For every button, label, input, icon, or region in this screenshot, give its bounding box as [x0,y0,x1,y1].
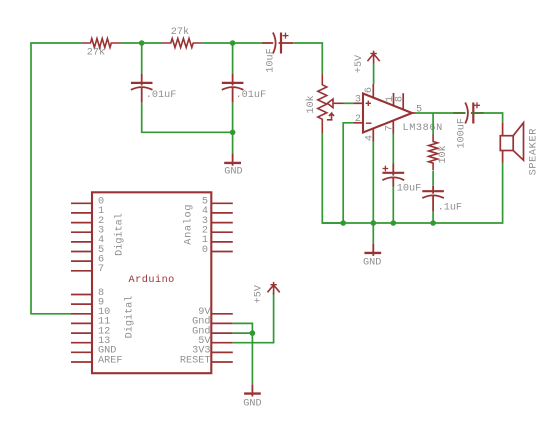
wire output down to R3 [432,113,434,135]
ground GND3 (Arduino) [244,384,261,396]
right power labels [180,307,211,366]
wire +5V to pin6 [373,64,375,85]
+5V supply P2 (Arduino) [268,282,280,295]
junction pin2/bus [340,220,346,226]
left pin labels [98,197,122,367]
right analog stubs [211,203,233,251]
svg-text:Arduino: Arduino [129,274,175,286]
wire C2 bottom to node C [232,103,234,133]
capacitor C4 10uF bypass [382,163,404,186]
node B junction [230,40,236,46]
junction pin4/bus [371,220,377,226]
svg-text:.01uF: .01uF [146,90,177,101]
op-amp plus input mark [366,101,371,106]
svg-text:10uF: 10uF [397,184,421,195]
svg-text:100uF: 100uF [457,118,468,149]
svg-text:AREF: AREF [98,355,122,366]
op-amp U1 LM386N triangle [363,94,412,133]
wire C1 bottom to node C [142,103,233,133]
Arduino module box [92,192,211,373]
svg-text:7: 7 [385,125,396,131]
svg-text:GND: GND [243,398,261,409]
svg-text:GND: GND [224,167,242,178]
svg-text:0: 0 [202,245,208,256]
svg-text:.01uF: .01uF [236,90,267,101]
ground GND2 (amp) [364,223,381,256]
svg-text:8: 8 [395,96,406,102]
wire node C to ground [232,132,234,153]
+5V supply P1 (amp) [368,51,380,64]
svg-text:27k: 27k [171,26,189,38]
wire 5V pin to +5V arrow [233,293,274,343]
op-amp minus input mark [366,122,372,124]
wire pin4 to ground bus [372,142,374,224]
speaker SP1 [500,122,523,162]
svg-text:6: 6 [364,87,375,93]
pin 8 stub [402,93,404,109]
wire R3 to C5 [432,171,434,186]
svg-text:SPEAKER: SPEAKER [528,128,539,175]
svg-text:3: 3 [355,94,361,105]
left pin stubs 0-7 [71,203,92,270]
right power stubs [211,314,233,362]
svg-text:10k: 10k [305,95,317,113]
wire C5 to ground bus [432,211,434,223]
svg-text:+5V: +5V [354,54,365,73]
svg-text:Analog: Analog [182,204,194,245]
wire Gnd pin to GND3 [233,323,253,384]
resistor R1 27k [81,39,121,48]
junction C4/bus [391,220,397,226]
wire pot wiper to pin3 [344,102,354,104]
svg-text:+5V: +5V [253,284,264,303]
svg-text:RESET: RESET [180,355,211,366]
resistor R3 10k [429,135,438,171]
wire C6 to speaker [484,113,503,122]
wire R1 to node A [121,42,161,44]
pin 4 stub [372,129,374,142]
wire R2 to node B to C3 [202,42,261,44]
svg-text:Digital: Digital [123,296,135,339]
capacitor C3 10uF [262,33,294,54]
wire Gnd pin2 to junction [233,332,253,334]
svg-text:27k: 27k [87,46,105,58]
capacitor C2 .01uF [222,74,244,103]
svg-text:4: 4 [364,135,375,141]
pin 1 stub [393,93,395,106]
wire C4 to ground bus [392,187,394,224]
capacitor C6 100uF [453,102,484,123]
pin 6 stub [372,84,374,98]
pin 3 stub [353,102,363,104]
pin 2 stub [353,122,363,124]
wire pot bottom to ground bus [322,133,343,223]
right analog labels [202,197,208,256]
wire C3 to pot [293,43,322,74]
svg-text:LM386N: LM386N [403,123,443,134]
svg-text:GND: GND [363,257,381,268]
svg-text:10uF: 10uF [265,48,276,72]
svg-text:Digital: Digital [114,213,126,256]
resistor R2 27k [162,39,203,48]
ground GND1 [224,153,241,165]
wire speaker to ground bus [433,163,503,224]
wire from pin10 up and across top [31,43,81,314]
svg-text:10k: 10k [437,145,449,163]
ground bus wire [322,222,433,224]
node A junction [139,40,145,46]
pin 5 stub [412,112,416,114]
junction Gnd [250,330,256,336]
svg-text:2: 2 [355,114,361,125]
left pin stubs 8-13,GND,AREF [71,295,92,363]
capacitor C1 .01uF [131,74,153,103]
node C junction [230,130,236,136]
capacitor C5 .1uF [422,186,444,211]
wire node B down to C2 [232,43,234,74]
wire pin7 down to C4 [392,134,394,164]
wire node A down to C1 [141,43,143,74]
pin 7 stub [392,121,394,134]
svg-text:.1uF: .1uF [438,203,462,214]
potentiometer 10k [318,74,344,133]
svg-text:7: 7 [98,264,104,275]
wire pin2 to ground bus [343,123,353,223]
wire pin5 output [416,112,454,114]
junction C5/bus [430,220,436,226]
